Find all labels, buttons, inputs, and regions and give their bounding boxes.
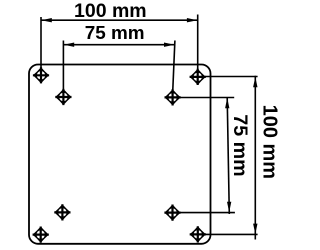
mounting hole H5 (top-left, 75mm pattern) <box>55 89 71 105</box>
plate outline <box>29 65 211 244</box>
extension line E5 (from H2 right to 100mm side dimension) <box>205 76 257 78</box>
mounting hole H6 (top-right, 75mm pattern) <box>165 89 181 105</box>
extension line E7 (from H7 right to 75mm side dimension) <box>180 212 235 214</box>
dimension line D2 (75 mm horizontal, top) <box>63 43 174 47</box>
extension line E3 (from H5 up to 75mm top dimension) <box>62 41 64 90</box>
dimension line D4 (75 mm vertical, right) <box>225 98 231 215</box>
svg-text:100 mm: 100 mm <box>259 105 281 180</box>
mounting hole H8 (bottom-left, 75mm pattern) <box>54 204 70 220</box>
mounting hole H1 (top-left, 100mm pattern) <box>33 67 49 83</box>
dimension line D3 (100 mm vertical, right) <box>253 76 257 240</box>
mounting hole H2 (top-right, 100mm pattern) <box>190 69 206 85</box>
extension line E4 (from H6 up to 75mm top dimension) <box>173 41 175 90</box>
svg-text:75 mm: 75 mm <box>229 114 251 176</box>
dimension line D1 (100 mm horizontal, top) <box>41 18 198 22</box>
extension line E6 (from H6 right to 75mm side dimension) <box>180 97 234 99</box>
mounting hole H3 (bottom-right, 100mm pattern) <box>190 226 206 242</box>
extension line E1 (from H1 up to 100mm top dimension) <box>40 17 42 68</box>
extension line E2 (from H2 up to 100mm top dimension) <box>197 15 199 70</box>
svg-text:75 mm: 75 mm <box>85 23 145 44</box>
extension line E8 (from H3 right to 100mm side dimension) <box>206 233 258 235</box>
svg-text:100 mm: 100 mm <box>74 0 147 22</box>
mounting hole H7 (bottom-right, 75mm pattern) <box>164 205 180 221</box>
mounting hole H4 (bottom-left, 100mm pattern) <box>33 227 49 243</box>
